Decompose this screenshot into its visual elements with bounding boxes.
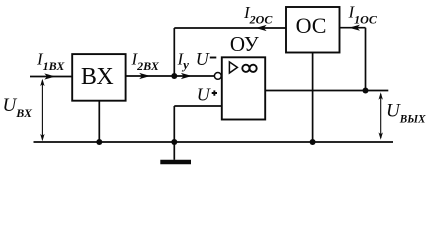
junction node ground branch on rail — [171, 139, 177, 145]
wire feedback horizontal — [174, 27, 286, 29]
op-amp inverting input bubble — [214, 73, 221, 80]
wire ground branch vertical — [173, 106, 175, 142]
voltage arrow UBX — [40, 79, 44, 142]
wire OC right vertical down to output — [365, 28, 367, 91]
junction node VX bottom on rail — [96, 139, 102, 145]
block OC (feedback block) — [286, 7, 340, 53]
current arrow I1OC — [349, 25, 360, 31]
current arrow I2BX — [139, 73, 150, 79]
wire OC right horizontal — [340, 27, 366, 29]
svg-text:ОС: ОС — [296, 13, 327, 38]
op-amp infinity symbol — [242, 65, 249, 72]
wire bottom common rail — [34, 141, 394, 143]
wire input left — [30, 76, 72, 78]
svg-text:U: U — [196, 49, 210, 69]
wire VX bottom vertical — [98, 101, 100, 142]
svg-text:ВХ: ВХ — [81, 64, 114, 90]
svg-text:ОУ: ОУ — [230, 32, 259, 56]
junction node output/feedback — [363, 88, 369, 94]
block VX (BX input block) — [72, 54, 125, 101]
junction node at inverting input — [171, 73, 177, 79]
label U plus — [197, 85, 217, 105]
svg-text:U: U — [197, 85, 211, 105]
ground — [160, 142, 191, 162]
wire op-amp output — [265, 90, 388, 92]
wire U+ input — [174, 105, 222, 107]
wire VX to node to op-amp — [126, 75, 215, 77]
op-amp triangle symbol — [229, 62, 237, 73]
current arrow I2OC — [256, 25, 267, 31]
wire OC bottom vertical — [312, 53, 314, 143]
wire feedback vertical — [173, 28, 175, 76]
label U minus — [196, 49, 217, 69]
current arrow I1BX — [44, 73, 55, 79]
current arrow Iy — [181, 73, 192, 79]
op-amp U1 (OU) — [214, 32, 265, 120]
voltage arrow UVYH — [379, 92, 383, 140]
junction node OC bottom on rail — [310, 139, 316, 145]
